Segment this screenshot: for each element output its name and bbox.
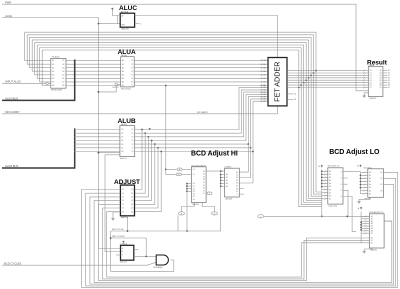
wire ALUB output bit 5 to FET ADDER — [135, 99, 268, 148]
wire ALUB bus input bit 3 — [75, 140, 120, 142]
junction ALUB wire tap 2 — [148, 136, 150, 138]
svg-text:A4: A4 — [226, 185, 228, 188]
svg-text:R7: R7 — [388, 87, 390, 89]
wire U8 left stub 9 — [322, 198, 328, 200]
bus entry hatch Result bit 4 — [363, 79, 365, 81]
svg-text:B6: B6 — [62, 78, 64, 80]
U2 right pin names — [62, 60, 64, 87]
wire ALUB bus input bit 2 — [75, 136, 120, 138]
svg-text:ALUA4: ALUA4 — [261, 74, 266, 77]
wire Result left stub 0 — [364, 70, 368, 72]
wire bus vertical 2 down to BCD LO — [311, 37, 322, 196]
wire U9c left stub 5 — [361, 227, 369, 229]
U6b right pin names — [236, 172, 239, 196]
svg-text:ALUA0: ALUA0 — [261, 59, 266, 62]
wire ALUA output bit 6 to FET ADDER — [134, 81, 268, 83]
wire ALUA bit7 drop to BCD HI tag b — [166, 86, 177, 175]
input port circle U2 — [46, 82, 49, 85]
wire FET ADDER sum bit 4 to Result — [287, 79, 364, 81]
svg-text:ALUA2: ALUA2 — [261, 66, 266, 69]
wire Result output stub 4 — [383, 79, 388, 81]
ic U2 buffer — [51, 58, 66, 88]
wire ALUC pin1 input — [112, 10, 120, 16]
svg-text:S6: S6 — [203, 188, 205, 190]
hatch U9b pin 5 — [364, 187, 366, 189]
wire ALUC pin interconnect — [116, 16, 118, 24]
junction WID on return — [110, 237, 112, 239]
wire bus bit 3 drop to U2 pin — [32, 40, 47, 71]
wire U8 left stub 1 — [322, 173, 328, 175]
ic Result U10 — [368, 66, 383, 96]
svg-text:A6: A6 — [369, 189, 371, 192]
wire FET ADDER sum bit 7 to Result — [287, 87, 364, 89]
hatch U9c pin 1 — [365, 218, 367, 220]
svg-text:ALUA5: ALUA5 — [261, 77, 266, 80]
ic BCD HI U6a — [192, 167, 207, 203]
wire ALUC output to FET ADDER top — [135, 16, 278, 58]
wire ALUC lower right stub — [135, 23, 140, 25]
svg-text:Hex/Oct: Hex/Oct — [120, 157, 127, 160]
wire U9b left stub 7 — [361, 193, 368, 195]
wire U8 left stub 2 — [322, 176, 328, 178]
svg-text:Hex/Oct/Dec: Hex/Oct/Dec — [121, 87, 131, 90]
svg-text:S0: S0 — [236, 172, 238, 174]
junction ALUB wire tap 0 — [141, 129, 143, 131]
junction U6b column 0 — [220, 174, 222, 176]
bus entry hatch ALUB bit 0 — [74, 129, 76, 131]
hatch U8 pin 9 — [324, 198, 326, 200]
junction U6a lower pin 0 — [186, 183, 188, 185]
bus entry hatch ALUB bit 5 — [74, 147, 76, 149]
junction ALUB wire tap 5 — [157, 147, 159, 149]
wire U8 stub C — [343, 177, 348, 179]
wire Result output stub 6 — [383, 84, 388, 86]
wire to BCD HI tag a — [166, 168, 177, 170]
wire tag b to U6a — [181, 173, 191, 175]
wire ALUA port down to ALUE drop — [98, 86, 116, 92]
wire WID CYCLES — [111, 238, 147, 256]
ADJUST right pin names — [131, 189, 133, 213]
svg-text:A2: A2 — [122, 66, 124, 69]
svg-text:A8: A8 — [52, 84, 54, 87]
wire U9b left stub 0 — [361, 171, 368, 173]
hatch U9b pin 1 — [364, 175, 366, 177]
arrow ALUB wire marker — [149, 128, 151, 130]
wire U6b left stub 0 — [221, 174, 225, 176]
wire U9c gnd — [364, 248, 372, 250]
bus entry hatch ALUA bus bit 7 — [74, 85, 76, 87]
net tag BCD HI c — [207, 192, 212, 195]
wire U11 pin3 stub — [116, 254, 121, 256]
svg-text:ALUB7: ALUB7 — [261, 100, 266, 103]
svg-text:S1: S1 — [203, 174, 205, 176]
wire ALUB bus input bit 1 — [75, 132, 120, 134]
FET input wire labels lower — [261, 84, 266, 103]
wire FET ADDER sum bit 2 to Result — [287, 74, 364, 76]
wire ALUB bus input bit 6 — [75, 151, 120, 153]
junction ALUB wire tap 3 — [151, 140, 153, 142]
junction U8 column 4 — [321, 183, 323, 185]
svg-text:A7: A7 — [329, 191, 331, 194]
wire U8 left stub 3 — [322, 180, 328, 182]
wire bus bit 4 drop to U2 pin — [35, 42, 47, 74]
wire ALUA output bit 2 to FET ADDER — [134, 67, 268, 69]
wire bus bit 7 drop to U2 pin — [42, 50, 47, 86]
wire U9b left stub 2 — [361, 177, 368, 179]
svg-text:B0: B0 — [329, 195, 331, 197]
svg-text:ALUA6: ALUA6 — [261, 81, 266, 84]
wire control return vertical — [110, 231, 112, 271]
svg-text:S1: S1 — [380, 178, 382, 180]
wire top bus bit 3 — [32, 39, 308, 41]
svg-text:FET ADDER: FET ADDER — [273, 62, 282, 102]
junction adjust bottom — [127, 230, 129, 232]
svg-text:D2: D2 — [122, 197, 124, 199]
ic ALUA U3 — [121, 57, 135, 87]
svg-text:A0: A0 — [329, 170, 331, 173]
junction U6b column 2 — [220, 180, 222, 182]
junction ctrl a on ALUE drop — [98, 152, 100, 154]
Result right pin names — [379, 70, 381, 89]
hatch U8 pin 8 — [324, 195, 326, 197]
U9b right pin names — [380, 172, 382, 192]
wire U6b left stub 2 — [221, 179, 225, 181]
hatch U9b pin 6 — [364, 190, 366, 192]
junction U6b column 4 — [220, 185, 222, 187]
wire tag a to U6a — [182, 168, 191, 170]
svg-text:S4: S4 — [236, 183, 238, 185]
svg-text:D0: D0 — [122, 189, 124, 191]
hatch U9c pin 0 — [365, 216, 367, 218]
ic BCD LO U8 — [328, 168, 343, 204]
wire U9c left stub 7 — [361, 232, 369, 234]
wire ALUB bus input bit 0 — [75, 129, 120, 131]
junction ALUB staircase branch 5 — [250, 147, 252, 149]
wire Result output stub 0 — [383, 70, 388, 72]
wire top bus bit 0 — [25, 31, 316, 33]
input port circle ALUA — [115, 83, 118, 86]
svg-text:SRI CARRY: SRI CARRY — [197, 111, 209, 114]
wire net INPUT ALUS — [2, 83, 46, 85]
wire Result left stub 3 — [364, 77, 368, 79]
svg-text:A4: A4 — [329, 182, 331, 185]
svg-text:D1: D1 — [122, 193, 124, 195]
ALUB right pin names — [131, 129, 133, 153]
bus entry hatch Result bit 2 — [363, 75, 365, 77]
svg-text:A4: A4 — [122, 74, 124, 77]
svg-text:Q7: Q7 — [379, 87, 381, 89]
svg-text:Logic Chip: Logic Chip — [329, 205, 338, 207]
junction sum wire to bus vertical 6 — [300, 84, 302, 86]
wire U6a lower stub 2 — [187, 188, 192, 190]
wire ADJUST output 3 up to ALUB wire — [135, 141, 152, 201]
wire bus bit 1 drop to U2 pin — [27, 35, 47, 64]
svg-text:D3: D3 — [122, 200, 124, 202]
svg-text:A1: A1 — [52, 59, 54, 62]
ic ALUB U4 — [120, 126, 135, 157]
wire ALUB output bit 6 to FET ADDER — [135, 101, 268, 151]
net tag U6a bl — [179, 212, 185, 215]
junction U9b column 1 — [360, 175, 362, 177]
wire ALUB output bit 2 to FET ADDER — [135, 92, 268, 137]
wire port to ALUA — [118, 83, 121, 85]
junction under-route left — [186, 230, 188, 232]
wire ADJUST data bit 3 bottom loop — [94, 201, 392, 283]
wire U2 right pin to ALUA pin 7 — [66, 85, 121, 87]
wire U8 out S to U9b column — [343, 171, 361, 173]
junction sum wire to bus vertical 0 — [315, 70, 317, 72]
wire branch to BCD HI U6b right 4 — [239, 144, 248, 172]
wire U9c left stub 2 — [361, 220, 369, 222]
svg-text:D5: D5 — [122, 208, 124, 210]
svg-text:A0: A0 — [122, 59, 124, 62]
svg-text:Q2: Q2 — [131, 197, 133, 199]
junction ALUA port on ALUE drop — [98, 91, 100, 93]
bus entry hatch ALUB bit 3 — [74, 140, 76, 142]
wire bus vertical 0 down to BCD LO — [316, 32, 322, 192]
junction U6b column 1 — [220, 177, 222, 179]
svg-text:74LS08N(1): 74LS08N(1) — [153, 267, 163, 269]
wire U2 left pin stub 5 — [47, 77, 51, 79]
wire U2 left pin stub 7 — [47, 85, 51, 87]
wire U2 right pin to ALUA pin 3 — [66, 70, 121, 72]
wire FET ADDER sum bit 3 to Result — [287, 77, 364, 79]
wire U6a lower stub 1 — [187, 185, 192, 187]
bus entry hatch Result bit 1 — [363, 72, 365, 74]
wire ADJUST gnd pin — [113, 212, 120, 217]
Result output labels — [388, 70, 390, 89]
svg-text:D7: D7 — [370, 87, 372, 89]
wire top bus bit 1 — [27, 34, 313, 36]
bus ALUB BUS thick — [2, 128, 75, 168]
wire ALUA output bit 3 to FET ADDER — [134, 70, 268, 72]
wire ALUA output bit 7 to FET ADDER — [134, 85, 268, 87]
svg-text:Y5: Y5 — [131, 148, 133, 150]
svg-text:A3: A3 — [329, 179, 331, 182]
wire under-route horizontal — [111, 230, 221, 232]
bus entry hatch ALUA bus bit 1 — [74, 63, 76, 65]
svg-text:Y2: Y2 — [131, 137, 133, 139]
wire U6b left stub 4 — [221, 185, 225, 187]
ground U9b — [357, 200, 360, 203]
wire Result left stub 6 — [364, 84, 368, 86]
svg-text:S6: S6 — [236, 188, 238, 190]
svg-text:S1: S1 — [236, 175, 238, 177]
net tag U6a br — [212, 212, 218, 215]
U11 left pin names — [122, 247, 124, 257]
wire FET ADDER sum bit 5 to Result — [287, 82, 364, 84]
svg-text:A0: A0 — [369, 171, 371, 174]
wire FET ADDER carry stub 1 — [287, 93, 293, 95]
U9c left pin names — [371, 215, 373, 244]
ALUB left pin names — [121, 129, 123, 153]
wire bus bit 0 drop to U2 pin — [25, 32, 47, 60]
ic ALUC U1 — [120, 13, 134, 27]
svg-text:S7: S7 — [203, 190, 205, 192]
svg-text:Q6: Q6 — [131, 211, 133, 213]
wire U2 left pin stub 6 — [47, 81, 51, 83]
wire Result output stub 3 — [383, 77, 388, 79]
junction U8 column 3 — [321, 180, 323, 182]
svg-text:S3: S3 — [236, 180, 238, 182]
svg-text:BCD Adjust LO: BCD Adjust LO — [329, 149, 380, 156]
svg-text:S5: S5 — [203, 185, 205, 187]
wire FET ADDER carry stub 2 — [287, 98, 293, 100]
svg-text:Y2: Y2 — [131, 67, 133, 69]
bus entry hatch ALUA bus bit 4 — [74, 74, 76, 76]
wire net SRI CARRY to FET carry-in — [2, 106, 278, 114]
svg-text:A7: A7 — [369, 192, 371, 195]
bus entry hatch Result bit 3 — [363, 77, 365, 79]
wire Result left stub 2 — [364, 74, 368, 76]
svg-text:B6: B6 — [121, 151, 123, 153]
junction U9b column 3 — [360, 181, 362, 183]
wire ADJUST data bit 2 bottom loop — [90, 185, 394, 285]
junction U6b column top — [220, 170, 222, 172]
bus entry hatch Result bit 0 — [363, 70, 365, 72]
wire U2 right pin to ALUA pin 1 — [66, 63, 121, 65]
svg-text:A1: A1 — [226, 176, 228, 179]
wire U9b left stub 3 — [361, 181, 368, 183]
wire ADJUST data bit 4 bottom loop — [98, 204, 369, 280]
and gate G1 — [156, 255, 168, 265]
wire ALUE drop to control IC — [98, 24, 120, 249]
hatch U8 pin 2 — [324, 177, 326, 179]
svg-text:BCD Adjust HI: BCD Adjust HI — [191, 151, 238, 158]
svg-text:ALUE: ALUE — [5, 14, 12, 18]
svg-text:B1: B1 — [329, 198, 331, 200]
svg-text:SN74LS245N: SN74LS245N — [51, 90, 63, 92]
U9b left pin names — [369, 171, 371, 195]
wire U6b pin column — [220, 171, 222, 231]
junction ALUA bit7 tap — [165, 85, 167, 87]
svg-text:A3: A3 — [369, 180, 371, 183]
svg-text:D3: D3 — [193, 191, 195, 193]
wire U8 left stub 5 — [322, 186, 328, 188]
wire Result gnd pin — [364, 93, 368, 95]
svg-text:S7: S7 — [236, 191, 238, 193]
arrow U11 top — [123, 241, 125, 243]
wire U9b gnd — [359, 197, 370, 200]
wire U8 left stub 6 — [322, 189, 328, 191]
U6a right pin names — [202, 171, 205, 195]
wire Result output stub 2 — [383, 74, 388, 76]
junction ALUB staircase branch 4 — [247, 143, 249, 145]
wire ADJUST output 5 up to ALUB wire — [135, 148, 159, 208]
junction sum wire to bus vertical 2 — [310, 75, 312, 77]
wire ALUB bus input bit 4 — [75, 143, 120, 145]
svg-text:A3: A3 — [122, 70, 124, 73]
svg-text:A0: A0 — [226, 173, 228, 176]
bus ALUA BUS thick — [2, 60, 75, 101]
junction U9b column 4 — [360, 184, 362, 186]
wire ALUA output bit 4 to FET ADDER — [134, 74, 268, 76]
svg-text:Q1: Q1 — [131, 193, 133, 195]
svg-text:S2: S2 — [380, 184, 382, 186]
svg-text:C8: C8 — [294, 99, 296, 101]
wire bus vertical 6 down to BCD LO — [301, 48, 322, 205]
junction ALUE branch down — [98, 23, 100, 25]
junction sum wire to bus vertical 1 — [313, 72, 315, 74]
svg-text:A1: A1 — [122, 63, 124, 66]
FET input wire labels upper — [261, 59, 266, 87]
wire net BCD CYCLES — [2, 262, 156, 265]
U2 left pin names — [52, 59, 54, 87]
bus entry hatch ALUA bus bit 2 — [74, 67, 76, 69]
svg-text:B3: B3 — [62, 67, 64, 69]
ALUA right pin names — [131, 60, 133, 87]
junction U8 column 0 — [321, 170, 323, 172]
svg-text:A3: A3 — [226, 182, 228, 185]
svg-text:Q5: Q5 — [131, 208, 133, 210]
junction U8 column 5 — [321, 186, 323, 188]
wire gate output return — [111, 260, 174, 271]
U6a left pin names — [193, 169, 195, 201]
hatch U9c pin 3 — [365, 223, 367, 225]
wire U2 left pin stub 2 — [47, 67, 51, 69]
svg-text:C4: C4 — [294, 94, 296, 96]
svg-text:Y5: Y5 — [131, 78, 133, 80]
ic ADJUST U5 — [120, 185, 134, 216]
hatch U8 pin 6 — [324, 189, 326, 191]
junction U9c column 3 — [360, 229, 362, 231]
junction U9c column 2 — [360, 226, 362, 228]
wire U9b left stub 1 — [361, 174, 368, 176]
wire ALUA output bit 1 to FET ADDER — [134, 63, 268, 65]
wire U8 pin column — [321, 170, 323, 217]
wire ADJUST output 0 up to ALUB wire — [135, 130, 143, 190]
U6b left pin names — [226, 173, 228, 188]
wire U6a pin to tag c — [205, 192, 208, 194]
wire bus vertical 4 down to BCD LO — [306, 42, 322, 200]
junction U6b column 3 — [220, 182, 222, 184]
bus entry hatch ALUB bit 4 — [74, 143, 76, 145]
svg-text:B1: B1 — [121, 133, 123, 135]
wire ALUB ctrl pin a — [98, 152, 120, 154]
junction BCD carry at U8b drop — [346, 216, 348, 218]
svg-text:Y0: Y0 — [131, 60, 133, 62]
svg-text:A4: A4 — [369, 183, 371, 186]
arrow U9c column — [360, 207, 362, 209]
input arrow ALUC — [111, 8, 113, 10]
svg-text:Y3: Y3 — [131, 71, 133, 73]
hatch U8 pin 0 — [324, 170, 326, 172]
wire ALUA output bit 5 to FET ADDER — [134, 77, 268, 79]
wire bus vertical 5 down to BCD LO — [304, 45, 322, 203]
svg-text:A5: A5 — [329, 185, 331, 188]
bus entry hatch ALUA bus bit 3 — [74, 70, 76, 72]
bus entry hatch ALUB bit 2 — [74, 136, 76, 138]
svg-text:A6: A6 — [52, 77, 54, 80]
svg-text:Y0: Y0 — [131, 129, 133, 131]
wire U6b left stub 1 — [221, 177, 225, 179]
svg-text:Q0: Q0 — [131, 189, 133, 191]
junction ALUB staircase branch 6 — [252, 151, 254, 153]
wire U6a bottom left — [182, 203, 195, 212]
svg-text:B4: B4 — [121, 144, 123, 146]
svg-text:A2: A2 — [226, 179, 228, 182]
svg-text:INPUT ALUS: INPUT ALUS — [5, 80, 21, 84]
wire U11 to gate — [134, 255, 156, 257]
hatch U9b pin 0 — [364, 171, 366, 173]
wire ADJUST data bit 1 bottom loop — [86, 178, 396, 286]
wire top bus bit 4 — [35, 41, 307, 43]
wire BCD carry to LO — [264, 215, 369, 217]
wire U6a under-route vertical — [186, 184, 188, 232]
arrow U9b column — [360, 165, 362, 167]
svg-text:B3: B3 — [121, 140, 123, 142]
wire U6b right stub S3 — [239, 188, 244, 190]
